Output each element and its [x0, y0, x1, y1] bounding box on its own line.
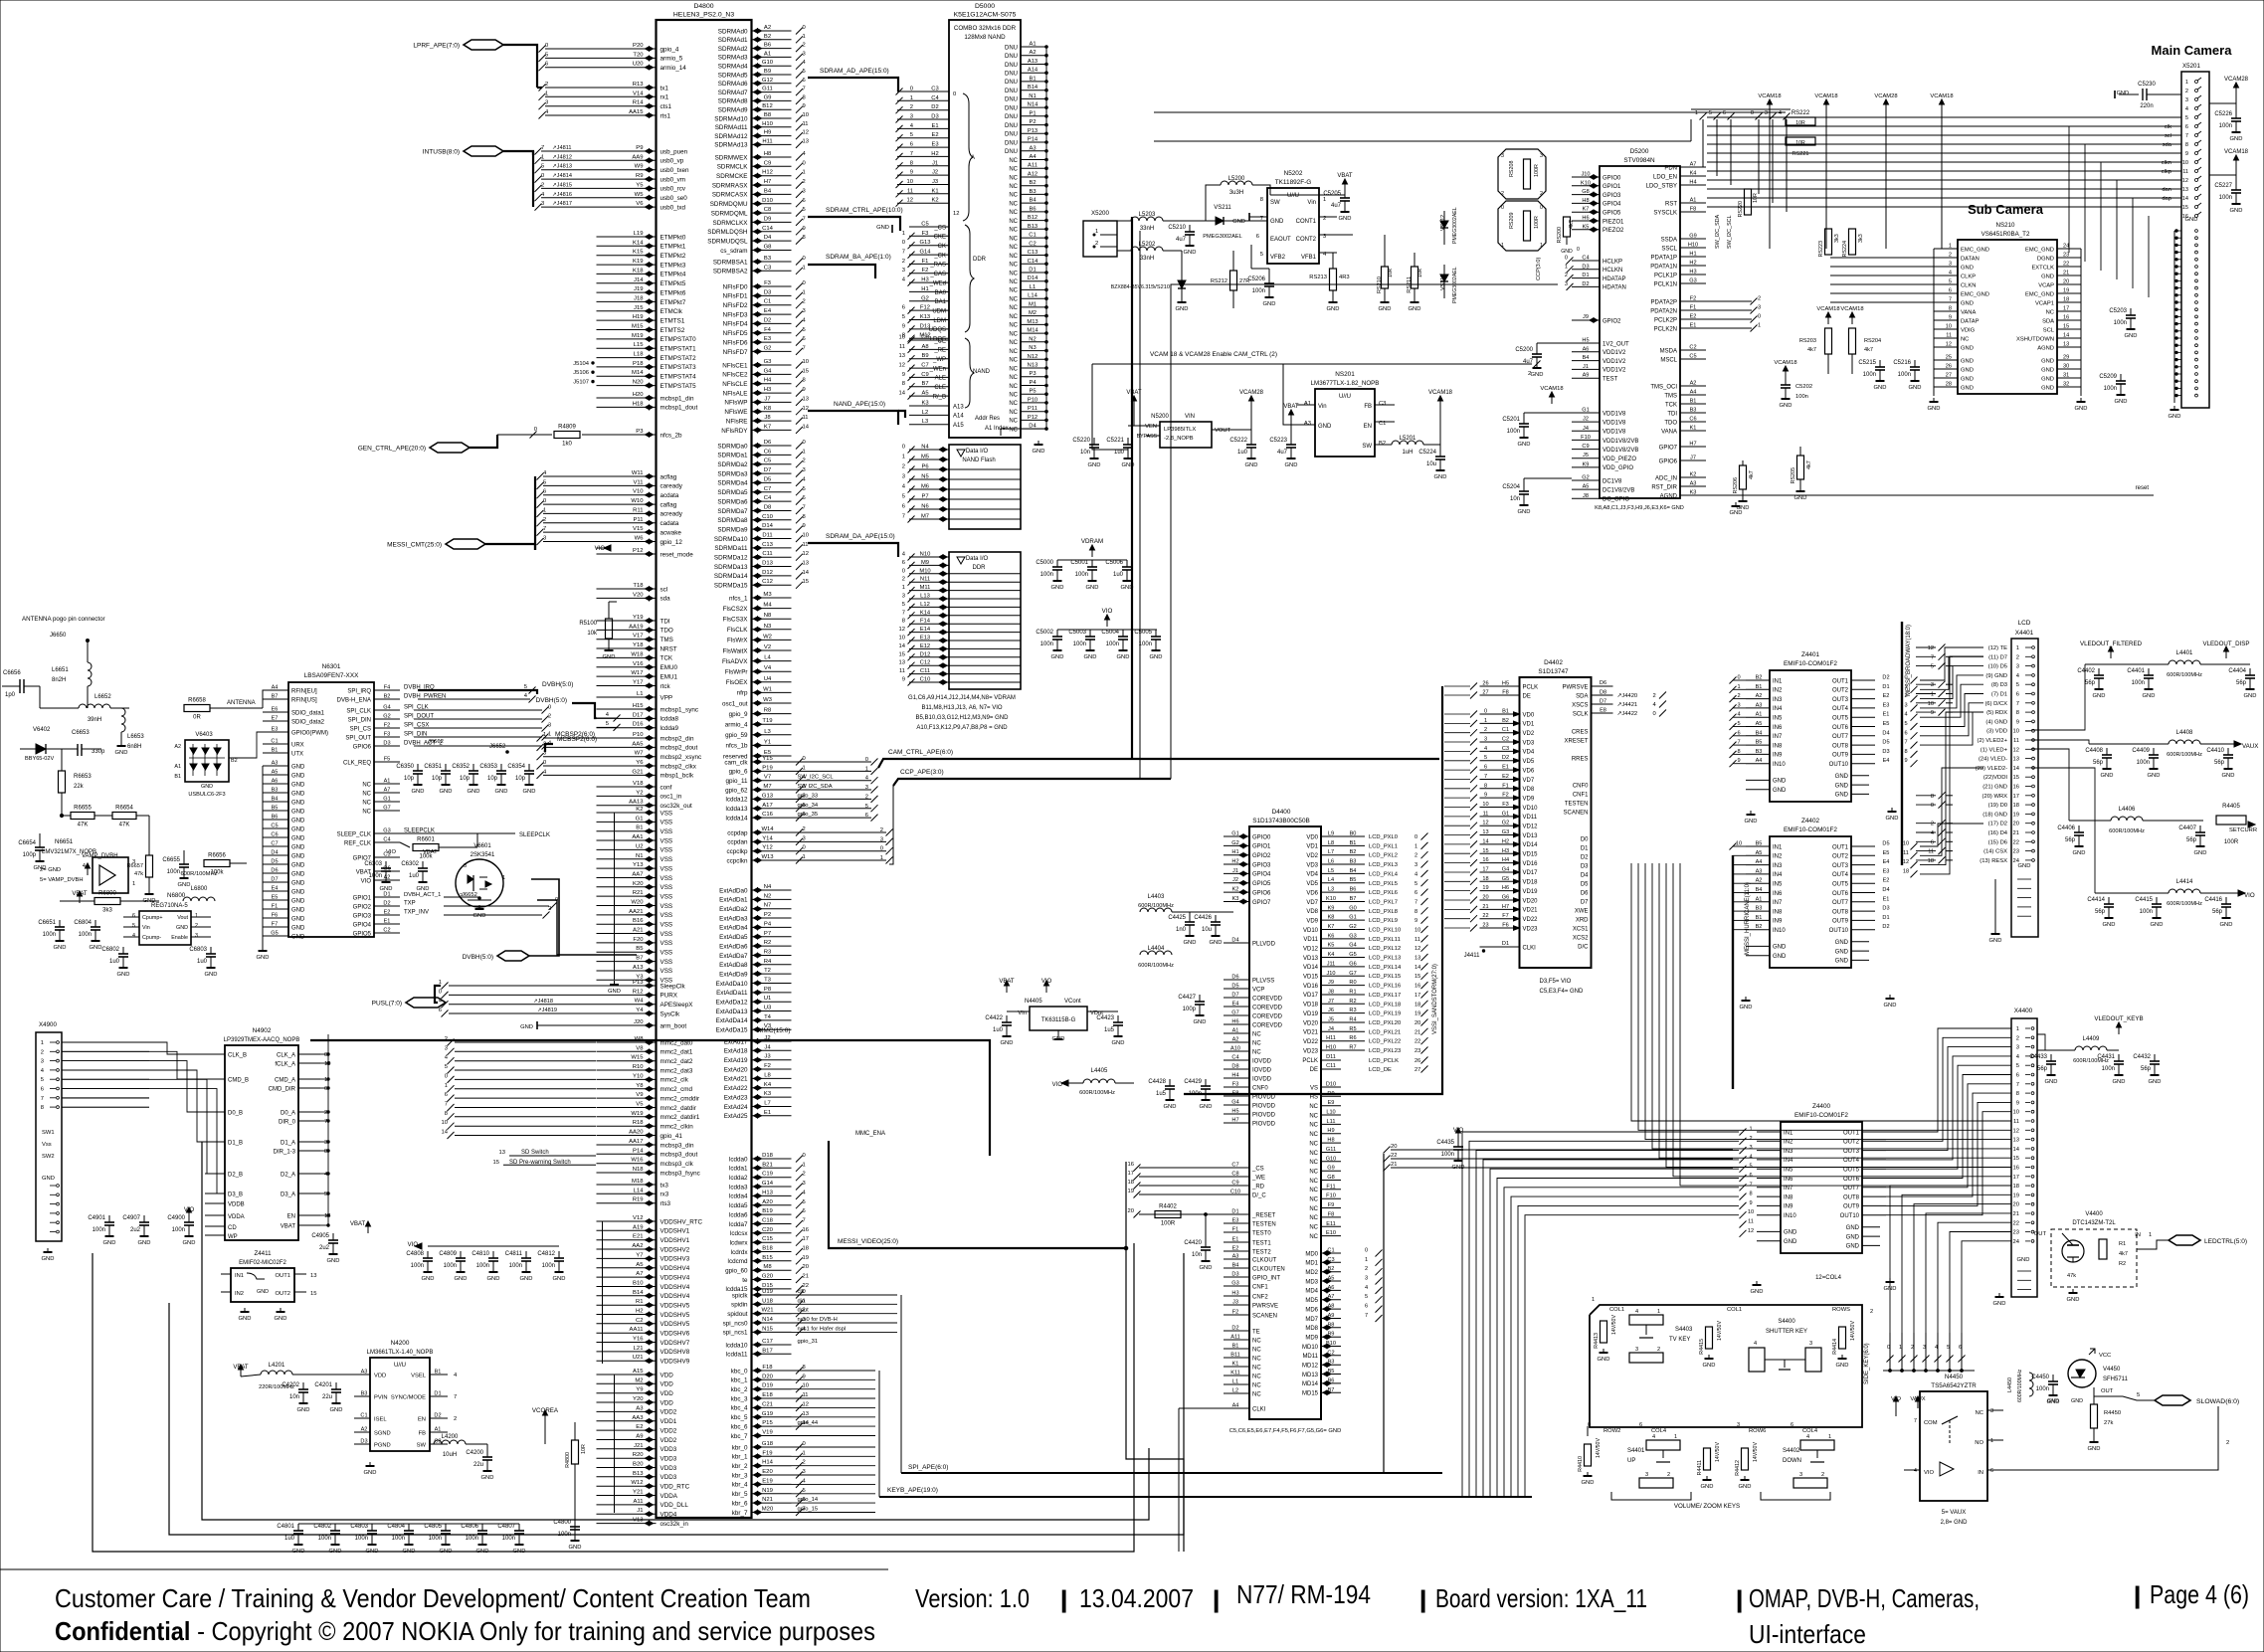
svg-text:K9: K9 [1328, 905, 1335, 911]
svg-text:NAND_APE(15:0): NAND_APE(15:0) [834, 401, 885, 408]
svg-text:2: 2 [1657, 1347, 1660, 1353]
svg-text:MD0: MD0 [1305, 1251, 1318, 1257]
svg-text:C17: C17 [762, 1339, 773, 1345]
svg-text:M11: M11 [920, 585, 931, 591]
svg-text:10: 10 [899, 636, 905, 642]
svg-text:PDATA1P: PDATA1P [1651, 255, 1677, 261]
svg-text:1: 1 [548, 732, 551, 738]
svg-text:600R/100MHz: 600R/100MHz [2109, 828, 2145, 834]
svg-text:3: 3 [464, 863, 467, 869]
svg-text:ETMPSTAT4: ETMPSTAT4 [660, 374, 697, 381]
svg-text:IN6: IN6 [1773, 725, 1783, 731]
svg-text:5: 5 [1365, 1294, 1368, 1300]
svg-text:E2: E2 [1883, 878, 1890, 884]
svg-text:V6402: V6402 [33, 727, 51, 733]
svg-text:23: 23 [1415, 1048, 1420, 1054]
svg-text:6: 6 [1723, 110, 1726, 116]
svg-text:G0: G0 [1349, 905, 1356, 911]
svg-text:NFlsCE1: NFlsCE1 [722, 362, 748, 369]
svg-text:K7: K7 [1583, 207, 1590, 213]
svg-text:47K: 47K [78, 823, 89, 828]
svg-text:0: 0 [548, 705, 551, 711]
svg-text:L7: L7 [1328, 849, 1334, 855]
svg-text:P13: P13 [633, 980, 644, 986]
svg-text:NC: NC [1009, 184, 1018, 190]
svg-text:(1) VLED+: (1) VLED+ [1981, 747, 2008, 753]
svg-text:VSS: VSS [660, 903, 673, 910]
svg-text:conf: conf [660, 784, 672, 791]
svg-text:K10: K10 [1326, 896, 1336, 902]
svg-text:GND: GND [1084, 654, 1097, 660]
svg-text:SDRMAd13: SDRMAd13 [714, 142, 748, 149]
svg-text:2: 2 [1565, 273, 1568, 278]
svg-text:J10: J10 [1581, 172, 1590, 178]
svg-text:V2: V2 [764, 644, 771, 650]
svg-text:B12: B12 [762, 103, 772, 109]
svg-text:SPI_IRQ: SPI_IRQ [347, 688, 371, 694]
svg-text:Y16: Y16 [633, 1337, 644, 1343]
svg-text:9: 9 [902, 323, 905, 329]
svg-text:nfcs_2b: nfcs_2b [660, 432, 683, 439]
svg-text:HS: HS [1310, 1095, 1318, 1101]
svg-text:1: 1 [1657, 1309, 1660, 1315]
svg-text:G5: G5 [1349, 952, 1356, 958]
svg-text:K14: K14 [920, 610, 931, 616]
D4800 right pins: SDRAM address bus [752, 30, 792, 32]
svg-text:SDRMBSA2: SDRMBSA2 [713, 269, 748, 275]
D5200 left gpio pins [1572, 176, 1600, 178]
svg-text:kbc_1: kbc_1 [731, 1377, 748, 1384]
svg-text:mmc2_cmddir: mmc2_cmddir [660, 1095, 700, 1102]
D4800 right pins: keyboard rows [752, 1446, 792, 1448]
svg-text:B4: B4 [1029, 198, 1037, 204]
svg-text:OUT7: OUT7 [1832, 734, 1849, 740]
svg-text:P12: P12 [1028, 415, 1038, 421]
svg-text:D13: D13 [762, 561, 774, 567]
svg-text:K1: K1 [1232, 1362, 1239, 1368]
svg-text:GND: GND [291, 773, 305, 779]
svg-text:B2: B2 [231, 758, 238, 764]
capacitor C5202 100n [1785, 371, 1787, 378]
svg-text:X5201: X5201 [2182, 63, 2200, 70]
svg-text:600R/100MHz: 600R/100MHz [2167, 752, 2202, 758]
svg-text:D2: D2 [1231, 1326, 1238, 1332]
svg-text:23: 23 [2063, 253, 2069, 259]
svg-text:C7: C7 [1231, 1163, 1238, 1169]
svg-text:gpio_60: gpio_60 [725, 1268, 748, 1275]
svg-text:OUT5: OUT5 [1832, 716, 1849, 722]
svg-text:SDRMLDQSH: SDRMLDQSH [707, 229, 748, 236]
svg-text:GND: GND [1263, 301, 1276, 307]
svg-text:U20: U20 [633, 62, 645, 68]
svg-text:12: 12 [803, 1401, 809, 1407]
svg-text:2: 2 [803, 43, 806, 49]
svg-text:11: 11 [1483, 811, 1489, 817]
svg-text:2: 2 [1653, 693, 1656, 699]
svg-text:15: 15 [803, 579, 809, 585]
svg-text:5: 5 [910, 132, 913, 138]
svg-text:B1: B1 [1232, 1344, 1239, 1350]
svg-text:GND: GND [1184, 940, 1197, 946]
svg-text:ExtAdDa5: ExtAdDa5 [719, 934, 748, 941]
svg-text:10: 10 [907, 179, 913, 185]
svg-text:NC: NC [1252, 1049, 1261, 1055]
svg-text:VDDSHV1: VDDSHV1 [660, 1228, 690, 1235]
svg-text:K2: K2 [931, 198, 938, 204]
svg-text:(5) RDX: (5) RDX [1986, 710, 2007, 716]
svg-text:1: 1 [803, 854, 806, 860]
svg-text:VDD1V2: VDD1V2 [1603, 350, 1626, 356]
svg-text:5: 5 [41, 1077, 44, 1083]
svg-text:ExtAdDa6: ExtAdDa6 [719, 943, 748, 950]
svg-text:Vin: Vin [1307, 200, 1316, 206]
svg-text:DOWN: DOWN [1783, 1458, 1801, 1464]
svg-text:V6601: V6601 [473, 843, 491, 849]
svg-text:13: 13 [499, 1150, 505, 1156]
svg-text:COL1: COL1 [1609, 1307, 1624, 1313]
svg-text:TMS_OCI: TMS_OCI [1650, 384, 1677, 390]
svg-text:A2: A2 [174, 744, 181, 750]
svg-text:A5: A5 [1756, 850, 1763, 856]
svg-text:3: 3 [2016, 1045, 2019, 1051]
svg-text:J11: J11 [1327, 961, 1336, 967]
svg-text:J1: J1 [1232, 868, 1238, 874]
svg-text:B21: B21 [762, 1162, 772, 1168]
D5000 left side address pins [897, 91, 949, 92]
svg-text:G10: G10 [1326, 1156, 1337, 1162]
svg-text:E4: E4 [1232, 1002, 1239, 1008]
svg-text:GND: GND [1835, 774, 1849, 780]
svg-text:VCAM28: VCAM28 [1874, 93, 1897, 99]
svg-text:NC: NC [1309, 1188, 1318, 1193]
svg-text:↗J4421: ↗J4421 [1617, 702, 1638, 708]
svg-text:F8: F8 [1502, 690, 1509, 696]
svg-text:1: 1 [41, 1040, 44, 1046]
svg-text:1u0: 1u0 [1237, 450, 1248, 456]
svg-text:armio_14: armio_14 [660, 65, 687, 72]
svg-text:A2: A2 [764, 25, 771, 31]
svg-text:12: 12 [1928, 645, 1934, 651]
svg-text:A7: A7 [1690, 162, 1697, 168]
svg-text:NC: NC [1009, 175, 1018, 181]
svg-text:13: 13 [2182, 187, 2188, 193]
svg-text:TDO: TDO [1664, 420, 1677, 426]
svg-text:lcdda14: lcdda14 [725, 815, 748, 822]
camera bus horizontal wires [1707, 116, 2181, 118]
svg-text:ExtAd18: ExtAd18 [724, 1048, 748, 1055]
svg-text:A5: A5 [1583, 484, 1590, 490]
svg-text:E1: E1 [764, 1110, 771, 1116]
svg-text:23: 23 [2013, 1230, 2019, 1236]
svg-text:B2: B2 [384, 694, 391, 700]
svg-text:IN9: IN9 [1773, 919, 1783, 925]
svg-text:1V2_OUT: 1V2_OUT [1603, 341, 1629, 347]
svg-text:2: 2 [543, 517, 546, 523]
svg-text:VD2: VD2 [1523, 731, 1535, 737]
svg-text:29: 29 [2063, 355, 2069, 361]
svg-text:dout: dout [798, 1308, 810, 1314]
svg-text:0: 0 [803, 440, 806, 446]
svg-text:COREVDD: COREVDD [1252, 1013, 1283, 1019]
svg-text:VDD_GPIO: VDD_GPIO [1603, 465, 1633, 471]
svg-text:OUT5: OUT5 [1843, 1168, 1860, 1174]
svg-text:E1: E1 [1232, 1237, 1239, 1243]
svg-text:A4: A4 [1029, 154, 1037, 160]
keys outline box [1590, 1305, 1862, 1427]
svg-text:VDD4: VDD4 [660, 1512, 677, 1519]
svg-text:A1 Index: A1 Index [985, 426, 1009, 432]
svg-text:4: 4 [548, 741, 551, 747]
svg-text:1u0: 1u0 [197, 959, 208, 965]
resistor R4414 varistor [1839, 1327, 1846, 1349]
svg-text:LCD_PXL22: LCD_PXL22 [1369, 1039, 1401, 1045]
svg-text:L6653: L6653 [127, 734, 144, 740]
svg-text:GND: GND [205, 972, 218, 978]
svg-text:VD2: VD2 [1306, 853, 1318, 859]
svg-text:GND: GND [1245, 462, 1258, 468]
svg-text:5: 5 [1709, 110, 1712, 116]
svg-text:C6804: C6804 [74, 920, 92, 926]
svg-text:7: 7 [1931, 654, 1934, 660]
D5200 dc1v8 pins [1572, 479, 1600, 481]
resistor R4410 varistor [1585, 1444, 1592, 1466]
svg-text:8: 8 [2016, 710, 2019, 716]
svg-text:0: 0 [803, 1441, 806, 1447]
svg-text:GND: GND [1409, 306, 1421, 312]
caps C6303 C6302 [385, 861, 387, 868]
svg-text:L6652: L6652 [94, 694, 111, 700]
svg-text:13: 13 [2013, 1138, 2019, 1144]
svg-text:reset: reset [2136, 485, 2150, 491]
svg-text:0: 0 [953, 92, 956, 97]
svg-text:kbr_6: kbr_6 [732, 1500, 748, 1507]
capacitor C5200 4u7 at D5200 [1536, 347, 1538, 354]
svg-text:D6: D6 [1231, 975, 1238, 981]
svg-text:IN6: IN6 [1773, 891, 1783, 897]
svg-text:IN9: IN9 [1784, 1204, 1793, 1210]
capacitor group C5000 C5001 C5006 VDRAM [1091, 550, 1093, 557]
svg-text:VDDSHV1: VDDSHV1 [660, 1237, 690, 1244]
svg-text:Cpump-: Cpump- [142, 935, 161, 941]
svg-text:L5202: L5202 [1139, 242, 1156, 248]
svg-text:1: 1 [803, 34, 806, 40]
svg-text:GND: GND [1835, 940, 1849, 946]
svg-text:56p: 56p [2186, 837, 2197, 843]
svg-text:GND: GND [2115, 399, 2128, 405]
svg-text:D4: D4 [1231, 938, 1238, 944]
D4800 right pins: lcdda [752, 1158, 792, 1160]
svg-text:CLE: CLE [934, 385, 946, 391]
svg-text:C3: C3 [931, 87, 938, 92]
svg-text:10: 10 [442, 1120, 448, 1126]
svg-text:GND: GND [1835, 949, 1849, 955]
svg-text:LCD_PXL21: LCD_PXL21 [1369, 1029, 1401, 1035]
svg-text:H6: H6 [1231, 1019, 1238, 1025]
svg-text:MSDA: MSDA [1660, 348, 1677, 354]
svg-text:C21: C21 [762, 1401, 773, 1407]
svg-text:COL4: COL4 [1802, 1428, 1818, 1434]
svg-text:(15) D6: (15) D6 [1988, 839, 2007, 845]
svg-text:NC: NC [1009, 193, 1018, 199]
svg-text:F1: F1 [1232, 1227, 1239, 1233]
svg-text:LCD_PXL23: LCD_PXL23 [1369, 1048, 1401, 1054]
svg-text:H5: H5 [1582, 338, 1589, 344]
svg-text:DNU: DNU [1005, 114, 1018, 120]
svg-text:mmc2_dat3: mmc2_dat3 [660, 1067, 693, 1074]
svg-text:C4401: C4401 [2127, 668, 2145, 674]
svg-text:N15: N15 [762, 1326, 774, 1332]
svg-text:C5: C5 [271, 824, 278, 829]
svg-text:2SK3541: 2SK3541 [471, 852, 495, 858]
svg-text:D5: D5 [271, 859, 278, 865]
svg-text:7: 7 [1484, 774, 1487, 780]
svg-text:VDDSHV4: VDDSHV4 [660, 1274, 690, 1281]
svg-text:L1: L1 [1030, 284, 1036, 290]
svg-text:A3: A3 [1690, 481, 1697, 487]
svg-text:sda: sda [2163, 142, 2172, 148]
svg-text:33nH: 33nH [1140, 226, 1154, 232]
svg-text:100n: 100n [1795, 394, 1808, 400]
svg-text:1: 1 [1501, 243, 1504, 249]
svg-text:P13: P13 [1028, 128, 1038, 134]
svg-text:VD0: VD0 [1306, 834, 1318, 840]
svg-text:A1: A1 [384, 779, 391, 785]
svg-text:ETMPkt0: ETMPkt0 [660, 234, 686, 241]
svg-text:GND: GND [1518, 442, 1531, 448]
svg-text:EMC_GND: EMC_GND [1961, 291, 1989, 297]
resistor network RS208 100R [1498, 149, 1546, 199]
capacitor C5203 100n right [2130, 308, 2132, 315]
svg-text:VBAT: VBAT [423, 849, 438, 855]
svg-text:lcdda10: lcdda10 [725, 1342, 748, 1349]
svg-text:7: 7 [1415, 900, 1417, 906]
svg-text:VD20: VD20 [1303, 1020, 1319, 1026]
svg-text:VDDSHV4: VDDSHV4 [660, 1284, 690, 1291]
svg-text:TMS: TMS [660, 637, 673, 643]
resistor network RS209 100R [1498, 201, 1546, 251]
svg-text:C11: C11 [1326, 1063, 1336, 1069]
D4800 right pins: keyboard columns [752, 1370, 792, 1372]
svg-text:SDA: SDA [2042, 318, 2054, 324]
svg-text:D1: D1 [1582, 273, 1589, 278]
svg-text:NC: NC [1976, 1410, 1983, 1416]
svg-text:mcbsp1_sync: mcbsp1_sync [660, 706, 699, 713]
wire bottom channel 1 [93, 1243, 1134, 1552]
svg-text:16: 16 [1415, 984, 1420, 990]
svg-text:ETMPkt3: ETMPkt3 [660, 262, 686, 269]
svg-text:10: 10 [2013, 1110, 2019, 1116]
svg-text:B7: B7 [921, 381, 928, 387]
svg-text:600R/100MHz: 600R/100MHz [2167, 901, 2202, 907]
svg-text:8: 8 [902, 381, 905, 387]
svg-text:VIO: VIO [595, 546, 606, 552]
svg-text:SW I2C_SDA: SW I2C_SDA [798, 784, 833, 790]
svg-text:DNU: DNU [1005, 63, 1018, 69]
wire bottom channel 2 [169, 1253, 1184, 1535]
svg-text:5: 5 [1931, 664, 1934, 670]
svg-text:VSS: VSS [660, 940, 673, 947]
svg-text:P10: P10 [633, 732, 644, 738]
svg-text:J2: J2 [932, 170, 938, 176]
svg-text:GND: GND [176, 925, 188, 931]
svg-text:12=COL4: 12=COL4 [1815, 1275, 1842, 1281]
svg-text:21: 21 [2013, 830, 2019, 836]
svg-text:P14: P14 [633, 1148, 644, 1154]
svg-text:0: 0 [803, 25, 806, 31]
svg-text:D1: D1 [1882, 684, 1889, 690]
svg-text:OUT: OUT [2101, 1388, 2114, 1394]
svg-text:R5100: R5100 [579, 621, 597, 627]
svg-text:CLK_REQ: CLK_REQ [343, 760, 371, 766]
svg-text:R1: R1 [2119, 1241, 2126, 1247]
svg-text:E1: E1 [1690, 323, 1697, 329]
svg-text:11: 11 [803, 415, 809, 421]
svg-text:mmc2_dat1: mmc2_dat1 [660, 1049, 693, 1056]
svg-text:G3: G3 [1502, 829, 1509, 835]
svg-text:XRD: XRD [1576, 917, 1589, 923]
svg-text:spidin: spidin [731, 1302, 748, 1309]
svg-text:A21: A21 [633, 928, 643, 934]
svg-text:B15: B15 [762, 1255, 773, 1261]
svg-text:A6: A6 [1583, 346, 1590, 352]
svg-text:lcdda9: lcdda9 [660, 725, 679, 732]
svg-text:3: 3 [543, 536, 546, 542]
svg-text:C4428: C4428 [1148, 1079, 1166, 1085]
svg-text:M15: M15 [632, 324, 644, 330]
svg-text:GND: GND [1773, 954, 1787, 960]
svg-text:MD12: MD12 [1302, 1364, 1319, 1370]
svg-text:J8: J8 [764, 415, 771, 421]
svg-text:VIO: VIO [1924, 1470, 1934, 1476]
svg-text:GND: GND [1784, 1239, 1797, 1245]
svg-text:spidout: spidout [727, 1311, 748, 1318]
svg-text:rtck: rtck [660, 683, 671, 690]
svg-text:W17: W17 [631, 670, 643, 676]
svg-text:H13: H13 [762, 1190, 774, 1195]
svg-text:IN1: IN1 [1784, 1130, 1793, 1136]
svg-text:B13: B13 [633, 1471, 644, 1477]
svg-text:C4416: C4416 [2204, 897, 2222, 903]
svg-text:LCD_PXL11: LCD_PXL11 [1369, 937, 1401, 943]
svg-text:K18: K18 [633, 268, 644, 274]
svg-text:GND: GND [2220, 922, 2233, 928]
svg-text:SW_I2C_SCL: SW_I2C_SCL [1727, 215, 1733, 249]
svg-text:GND: GND [2041, 367, 2054, 373]
svg-text:GND: GND [2143, 693, 2156, 699]
svg-text:8: 8 [1484, 783, 1487, 789]
svg-text:PIOVDD: PIOVDD [1252, 1112, 1276, 1118]
svg-text:_RE: _RE [933, 348, 946, 354]
svg-text:PDATA1N: PDATA1N [1650, 264, 1677, 270]
svg-text:1: 1 [803, 449, 806, 455]
svg-text:R1: R1 [1349, 990, 1356, 996]
svg-text:GND: GND [412, 789, 425, 795]
svg-text:OUT9: OUT9 [1832, 919, 1849, 925]
wires sub camera left entries [1830, 257, 1934, 259]
svg-text:SW: SW [1270, 200, 1280, 206]
svg-text:RS221: RS221 [1792, 151, 1808, 157]
svg-text:gpio_33: gpio_33 [798, 793, 819, 799]
svg-text:GND: GND [291, 853, 305, 859]
svg-text:3: 3 [1931, 682, 1934, 688]
svg-text:D6: D6 [271, 868, 278, 874]
svg-text:14: 14 [899, 391, 906, 397]
svg-text:BA0: BA0 [935, 290, 947, 296]
svg-text:D5200: D5200 [1630, 148, 1649, 155]
svg-text:NC: NC [1009, 393, 1018, 399]
svg-text:D10: D10 [1326, 1082, 1336, 1088]
svg-text:0: 0 [803, 756, 806, 762]
